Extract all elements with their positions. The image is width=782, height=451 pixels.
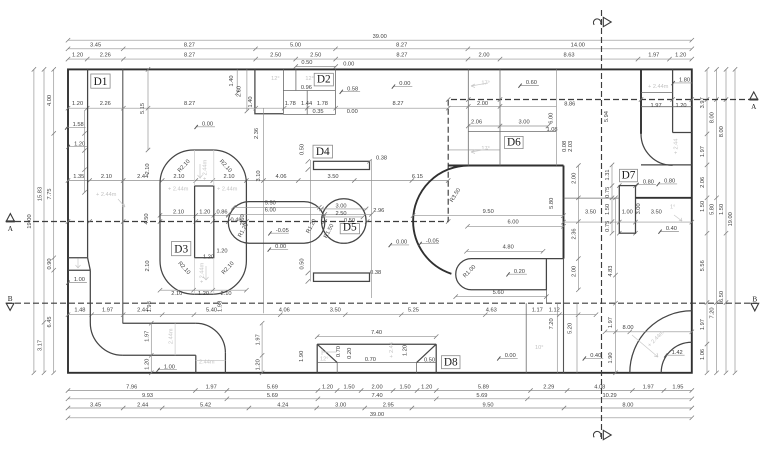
D7 dims	[564, 197, 620, 199]
svg-text:R2.10: R2.10	[221, 261, 236, 276]
svg-text:1.97: 1.97	[145, 331, 151, 342]
svg-text:2.50: 2.50	[270, 53, 281, 59]
feature: lower thin rectangle	[314, 273, 370, 281]
svg-text:3.50: 3.50	[585, 210, 596, 216]
construction verticals D4 columns	[310, 160, 312, 281]
svg-text:A: A	[751, 103, 757, 111]
room labels	[673, 82, 692, 84]
svg-text:1.20: 1.20	[145, 359, 151, 370]
wall: main plan outline	[68, 69, 692, 372]
feature: obround pool	[228, 202, 324, 244]
svg-text:2.10: 2.10	[223, 174, 234, 180]
svg-text:5.69: 5.69	[267, 393, 278, 399]
wall: left band vertical x=87.6	[87, 69, 89, 257]
svg-text:1.50: 1.50	[344, 385, 355, 391]
obround dims	[233, 206, 319, 208]
svg-text:+ 2.44m: + 2.44m	[647, 330, 666, 349]
svg-text:2.06: 2.06	[471, 119, 482, 125]
svg-text:5.50: 5.50	[265, 201, 276, 207]
dim verticals bottom-left 1.97/1.20	[150, 323, 152, 373]
label D8	[442, 356, 461, 369]
chain line y=180.5 mid interior	[68, 180, 448, 182]
svg-text:3.50: 3.50	[327, 174, 338, 180]
svg-text:4.08: 4.08	[594, 385, 605, 391]
svg-text:0.80: 0.80	[643, 179, 654, 185]
feature D4: upper thin rectangle	[314, 161, 370, 169]
svg-text:5.20: 5.20	[568, 323, 574, 334]
svg-text:D2: D2	[317, 74, 331, 86]
svg-text:4.06: 4.06	[279, 308, 290, 314]
svg-text:1.98: 1.98	[218, 301, 224, 312]
svg-text:2.00: 2.00	[572, 266, 578, 277]
svg-text:+ 2.44m: + 2.44m	[203, 159, 209, 180]
svg-text:0.38: 0.38	[370, 270, 381, 276]
svg-text:1.20: 1.20	[322, 385, 333, 391]
svg-text:8.27: 8.27	[396, 53, 407, 59]
svg-text:5.94: 5.94	[604, 111, 610, 122]
svg-text:3.97: 3.97	[700, 97, 706, 108]
svg-text:1.95: 1.95	[672, 385, 683, 391]
svg-text:B: B	[752, 296, 757, 304]
svg-text:8.27: 8.27	[184, 42, 195, 48]
construction verticals D6	[467, 69, 469, 165]
svg-text:0.70: 0.70	[365, 357, 376, 363]
svg-text:3.00: 3.00	[335, 402, 346, 408]
svg-text:2.10: 2.10	[173, 174, 184, 180]
svg-text:5.42: 5.42	[200, 402, 211, 408]
svg-text:1.50: 1.50	[400, 385, 411, 391]
svg-text:7.96: 7.96	[126, 385, 137, 391]
svg-text:3.10: 3.10	[256, 170, 262, 181]
feature D3: inner rectangle	[195, 186, 214, 258]
svg-text:5.56: 5.56	[700, 260, 706, 271]
D3 bottom chain	[160, 289, 246, 291]
svg-text:3.00: 3.00	[519, 119, 530, 125]
svg-text:1.20: 1.20	[198, 291, 209, 297]
svg-text:A: A	[8, 225, 14, 233]
feature D5: circle	[322, 199, 367, 244]
svg-text:6.15: 6.15	[412, 174, 423, 180]
svg-text:0.00: 0.00	[396, 240, 407, 246]
svg-text:8.00: 8.00	[719, 126, 725, 137]
svg-text:2.95: 2.95	[383, 402, 394, 408]
faint slope arrows	[198, 164, 209, 280]
svg-text:1.97: 1.97	[700, 319, 706, 330]
svg-text:1.90: 1.90	[608, 352, 614, 363]
svg-text:9.50: 9.50	[482, 402, 493, 408]
svg-text:0.50: 0.50	[301, 60, 312, 66]
svg-text:12°: 12°	[271, 76, 279, 82]
svg-text:1°: 1°	[670, 205, 675, 211]
svg-text:0.00: 0.00	[505, 353, 516, 359]
svg-text:0.35: 0.35	[312, 109, 323, 115]
svg-text:8.27: 8.27	[184, 101, 195, 107]
dim vertical 1.40/2.60 x=237	[236, 69, 238, 92]
svg-text:2.44: 2.44	[137, 402, 148, 408]
svg-text:8.27: 8.27	[396, 42, 407, 48]
section marker A left	[6, 214, 14, 222]
svg-text:10.29: 10.29	[602, 393, 616, 399]
svg-text:1.97: 1.97	[255, 334, 261, 345]
circle dims	[321, 208, 368, 210]
svg-text:7.20: 7.20	[710, 307, 716, 318]
svg-text:R2.10: R2.10	[218, 159, 233, 174]
svg-text:3.45: 3.45	[90, 42, 101, 48]
svg-text:1.20: 1.20	[72, 101, 83, 107]
wall: S-path upper horizontal y=323	[123, 322, 196, 324]
svg-text:4.00: 4.00	[47, 95, 53, 106]
feature D8: box with diagonals	[317, 344, 436, 373]
svg-text:0.20: 0.20	[514, 269, 525, 275]
feature D7: rectangle	[617, 183, 621, 187]
svg-text:1.97: 1.97	[651, 103, 662, 109]
svg-text:0.75: 0.75	[605, 221, 611, 232]
svg-text:2.50: 2.50	[335, 211, 346, 217]
svg-text:6.50: 6.50	[719, 291, 725, 302]
svg-text:0.70: 0.70	[336, 346, 342, 357]
dimension: small 0.50 row above D2	[296, 66, 336, 68]
svg-text:8.86: 8.86	[564, 102, 575, 108]
wall: bullet right edge	[563, 166, 565, 259]
construction line vertical x=123	[122, 69, 124, 323]
label D3	[172, 242, 191, 256]
svg-text:1.97: 1.97	[608, 317, 614, 328]
svg-text:3.17: 3.17	[37, 340, 43, 351]
svg-text:1.20: 1.20	[199, 209, 210, 215]
feature D3: stadium outline	[160, 150, 246, 294]
svg-text:5.40: 5.40	[206, 308, 217, 314]
bullet dims	[413, 215, 563, 217]
svg-text:2.60: 2.60	[237, 86, 243, 97]
svg-text:1.50: 1.50	[719, 204, 725, 215]
svg-text:6.00: 6.00	[549, 113, 555, 124]
svg-text:9.93: 9.93	[142, 393, 153, 399]
svg-text:1.00: 1.00	[622, 210, 633, 216]
svg-text:R1.20: R1.20	[306, 218, 318, 234]
svg-text:0.20: 0.20	[347, 348, 353, 359]
svg-text:0.00: 0.00	[343, 61, 354, 67]
dimension chain: right margin 2	[716, 69, 718, 372]
chain labels on section A-A	[66, 219, 70, 223]
feature D2: small boxes	[283, 69, 335, 114]
wall: bullet top edge	[448, 165, 563, 167]
svg-text:1.97: 1.97	[700, 146, 706, 157]
svg-text:7.40: 7.40	[371, 330, 382, 336]
elevation near 0.00 center	[196, 126, 215, 128]
section line B-B	[6, 302, 757, 304]
svg-text:R3.50: R3.50	[449, 187, 462, 203]
svg-text:1.20: 1.20	[402, 345, 408, 356]
label D5	[340, 224, 359, 234]
svg-text:2.10: 2.10	[145, 260, 151, 271]
section marker C bottom	[593, 431, 600, 437]
svg-text:2.00: 2.00	[572, 173, 578, 184]
svg-text:12°: 12°	[320, 356, 328, 362]
svg-text:3.50: 3.50	[651, 210, 662, 216]
room horizontals	[641, 91, 673, 93]
wall: bullet big arc R3.50	[413, 166, 469, 274]
wall: bottom horizontal y=354.8	[123, 354, 196, 356]
dimension chain: bottom row 2	[68, 398, 692, 400]
label D6	[505, 136, 523, 148]
svg-text:7.20: 7.20	[549, 318, 555, 329]
svg-text:1.31: 1.31	[605, 169, 611, 180]
svg-text:3.00: 3.00	[636, 203, 642, 214]
svg-text:1.44: 1.44	[301, 101, 312, 107]
dimension chain: right margin 3	[725, 69, 727, 372]
svg-text:2.00: 2.00	[478, 53, 489, 59]
construction line vertical x=263.5	[263, 108, 265, 313]
svg-text:1.97: 1.97	[206, 385, 217, 391]
svg-text:1.90: 1.90	[299, 351, 305, 362]
svg-text:7.40: 7.40	[372, 393, 383, 399]
svg-text:2.10: 2.10	[171, 291, 182, 297]
svg-text:2.06: 2.06	[700, 177, 706, 188]
svg-text:1.20: 1.20	[675, 53, 686, 59]
svg-text:10°: 10°	[535, 345, 543, 351]
svg-text:6.00: 6.00	[508, 220, 519, 226]
wall: room vertical x=641	[640, 69, 642, 133]
svg-text:D7: D7	[622, 170, 636, 182]
svg-text:2.10: 2.10	[145, 163, 151, 174]
svg-text:5.25: 5.25	[408, 308, 419, 314]
dimension chain: right margin 4 19.00	[734, 69, 736, 372]
dimension chain: top row 3	[68, 58, 692, 60]
svg-text:1.78: 1.78	[285, 101, 296, 107]
svg-text:1.42: 1.42	[672, 350, 683, 356]
svg-text:1.80: 1.80	[679, 78, 690, 84]
svg-text:2.96: 2.96	[373, 208, 384, 214]
svg-text:1.20: 1.20	[203, 254, 214, 260]
construction verticals bottom right	[563, 259, 565, 373]
svg-text:1.20: 1.20	[72, 53, 83, 59]
wall: corner quarter arc outer R8	[630, 311, 692, 373]
svg-text:1.48: 1.48	[74, 308, 85, 314]
dim vertical 5.15 at x=148	[147, 69, 149, 150]
svg-text:6.45: 6.45	[47, 316, 53, 327]
svg-text:+ 2.44m: + 2.44m	[648, 84, 669, 90]
svg-text:5.69: 5.69	[267, 385, 278, 391]
svg-text:15.83: 15.83	[37, 187, 43, 201]
dimension chain: bottom row total 39.00	[68, 417, 692, 419]
svg-text:0.00: 0.00	[275, 244, 286, 250]
svg-text:+ 2.44m: + 2.44m	[168, 187, 189, 193]
svg-text:R1.00: R1.00	[462, 264, 477, 279]
svg-text:12°: 12°	[305, 76, 313, 82]
wall: thick line right of D7	[636, 197, 692, 199]
dim vertical x=578 right of bullet	[577, 166, 579, 290]
svg-text:4.24: 4.24	[277, 402, 288, 408]
svg-text:2.36: 2.36	[572, 228, 578, 239]
svg-text:8.00: 8.00	[622, 325, 633, 331]
wall: stub x=254.9 top	[255, 69, 284, 113]
svg-text:7.75: 7.75	[47, 188, 53, 199]
svg-text:+ 2.44m: + 2.44m	[96, 192, 117, 198]
svg-text:1.12: 1.12	[549, 308, 560, 314]
svg-text:14.00: 14.00	[571, 42, 585, 48]
svg-text:0.50: 0.50	[299, 258, 305, 269]
svg-text:0.86: 0.86	[216, 209, 227, 215]
svg-text:2.50: 2.50	[310, 53, 321, 59]
svg-text:1.20: 1.20	[74, 141, 85, 147]
feature: small obround in bullet	[456, 259, 564, 290]
svg-text:R2.10: R2.10	[176, 261, 191, 276]
svg-text:2.29: 2.29	[543, 385, 554, 391]
svg-text:6.00: 6.00	[265, 208, 276, 214]
svg-text:8.27: 8.27	[184, 53, 195, 59]
svg-text:D4: D4	[316, 146, 330, 158]
svg-text:2.26: 2.26	[100, 101, 111, 107]
svg-text:0.00: 0.00	[399, 81, 410, 87]
dimension chain: top row 2	[68, 48, 692, 50]
svg-text:+ 2.44: + 2.44	[389, 342, 395, 358]
svg-text:1.40: 1.40	[229, 75, 235, 86]
svg-text:2.26: 2.26	[100, 53, 111, 59]
svg-text:5.80: 5.80	[710, 204, 716, 215]
svg-text:0.75: 0.75	[605, 187, 611, 198]
chain line y=108 upper interior	[68, 107, 448, 109]
svg-text:2.03: 2.03	[568, 141, 574, 152]
svg-text:5.89: 5.89	[478, 385, 489, 391]
svg-text:1.40: 1.40	[248, 96, 254, 107]
svg-text:0.80: 0.80	[664, 179, 675, 185]
svg-text:B: B	[8, 295, 13, 303]
svg-text:0.50: 0.50	[344, 218, 355, 224]
label D2	[314, 73, 333, 86]
svg-text:R2.10: R2.10	[177, 159, 192, 174]
svg-text:D8: D8	[444, 357, 458, 369]
svg-text:1.00: 1.00	[164, 364, 175, 370]
dimension chain: bottom row 1	[68, 390, 692, 392]
svg-text:8.00: 8.00	[622, 402, 633, 408]
svg-text:0.38: 0.38	[376, 155, 387, 161]
wall: vertical x=195.1	[195, 355, 197, 373]
section line A-A (left part, jog, right part)	[6, 100, 757, 222]
svg-text:1.20: 1.20	[217, 249, 228, 255]
wall: left band step box	[68, 258, 90, 270]
svg-text:1.97: 1.97	[102, 308, 113, 314]
svg-text:2.10: 2.10	[173, 209, 184, 215]
wall: lower-left quarter arc	[90, 323, 123, 356]
svg-text:4.80: 4.80	[503, 245, 514, 251]
svg-text:1.20: 1.20	[421, 385, 432, 391]
svg-text:5.69: 5.69	[476, 393, 487, 399]
corner dims	[605, 331, 692, 333]
svg-text:D6: D6	[507, 136, 521, 148]
dimension chain: left margin 19.00	[33, 69, 35, 372]
svg-text:8.27: 8.27	[392, 101, 403, 107]
label D4	[313, 145, 333, 158]
svg-text:2.10: 2.10	[220, 291, 231, 297]
svg-text:9.50: 9.50	[483, 209, 494, 215]
svg-text:1.97: 1.97	[643, 385, 654, 391]
dimension chain: left margin 15.83/3.17	[43, 69, 45, 372]
svg-text:3.00: 3.00	[335, 204, 346, 210]
svg-text:0.00: 0.00	[347, 109, 358, 115]
svg-text:1.58: 1.58	[73, 122, 84, 128]
svg-text:0.60: 0.60	[526, 80, 537, 86]
svg-text:2.00: 2.00	[477, 101, 488, 107]
dimension chain: top row total 39.00	[68, 39, 692, 41]
svg-text:+ 2.44: + 2.44	[674, 139, 680, 155]
svg-text:0.50: 0.50	[424, 357, 435, 363]
svg-text:1.00: 1.00	[74, 277, 85, 283]
svg-text:39.00: 39.00	[370, 412, 384, 418]
svg-text:1.98: 1.98	[147, 301, 153, 312]
svg-text:1.50: 1.50	[605, 204, 611, 215]
svg-text:1.08: 1.08	[546, 127, 557, 133]
svg-text:0.58: 0.58	[347, 86, 358, 92]
svg-text:5.00: 5.00	[290, 42, 301, 48]
svg-text:0.40: 0.40	[666, 226, 677, 232]
svg-text:2.00: 2.00	[372, 385, 383, 391]
svg-text:+ 2.44m: + 2.44m	[217, 187, 238, 193]
svg-text:8.63: 8.63	[563, 53, 574, 59]
elevation labels left band	[67, 126, 86, 128]
section line C-C vertical	[601, 10, 603, 440]
wall: vertical x=226.2	[224, 353, 226, 373]
wall: room vertical x=672.6	[672, 69, 674, 132]
svg-text:4.50: 4.50	[144, 213, 150, 224]
svg-text:D3: D3	[174, 244, 188, 256]
svg-text:1.20: 1.20	[675, 103, 686, 109]
svg-text:0.40: 0.40	[590, 353, 601, 359]
label D1	[91, 74, 110, 88]
svg-text:0.96: 0.96	[301, 85, 312, 91]
section marker C top	[593, 19, 600, 25]
dim verticals bottom right	[615, 198, 617, 373]
svg-text:1.35: 1.35	[73, 174, 84, 180]
dimension chain: left margin 4.00/7.75/0.90/6.45	[53, 69, 55, 372]
section marker A right	[750, 92, 758, 99]
dim vertical small x=84.5	[82, 131, 86, 135]
svg-text:5.80: 5.80	[549, 198, 555, 209]
feature D3: faint center guides	[195, 150, 214, 294]
label D7	[620, 169, 638, 182]
svg-text:4.83: 4.83	[608, 266, 614, 277]
svg-text:1.50: 1.50	[700, 201, 706, 212]
dimension chain: right margin 1	[706, 69, 708, 372]
svg-text:0.90: 0.90	[47, 258, 53, 269]
svg-text:0.00: 0.00	[202, 122, 213, 128]
svg-text:5.60: 5.60	[493, 290, 504, 296]
wall: corner quarter arc inner	[661, 342, 692, 373]
D6 horizontals	[448, 105, 556, 107]
svg-text:4.06: 4.06	[275, 174, 286, 180]
svg-text:-0.05: -0.05	[276, 228, 289, 234]
svg-text:19.00: 19.00	[728, 212, 734, 226]
svg-text:3.50: 3.50	[330, 308, 341, 314]
wall: left band lower vertical	[89, 270, 91, 322]
svg-text:1.97: 1.97	[648, 53, 659, 59]
svg-text:+ 2.44m: + 2.44m	[200, 262, 206, 283]
svg-text:1.17: 1.17	[532, 308, 543, 314]
chain line y=313 lower interior	[68, 314, 596, 316]
svg-text:D1: D1	[94, 76, 108, 88]
svg-text:3.45: 3.45	[90, 402, 101, 408]
svg-text:1.06: 1.06	[700, 349, 706, 360]
svg-text:2.36: 2.36	[254, 128, 260, 139]
svg-text:39.00: 39.00	[373, 34, 387, 40]
D8 dims	[317, 336, 436, 338]
svg-text:2.10: 2.10	[101, 174, 112, 180]
svg-text:2.44m: 2.44m	[168, 328, 174, 344]
svg-text:-0.05: -0.05	[426, 238, 439, 244]
svg-text:8.00: 8.00	[710, 112, 716, 123]
svg-text:0.50: 0.50	[299, 144, 305, 155]
wall: room corner arc	[641, 134, 673, 165]
dimension chain: bottom row 3	[68, 407, 692, 409]
